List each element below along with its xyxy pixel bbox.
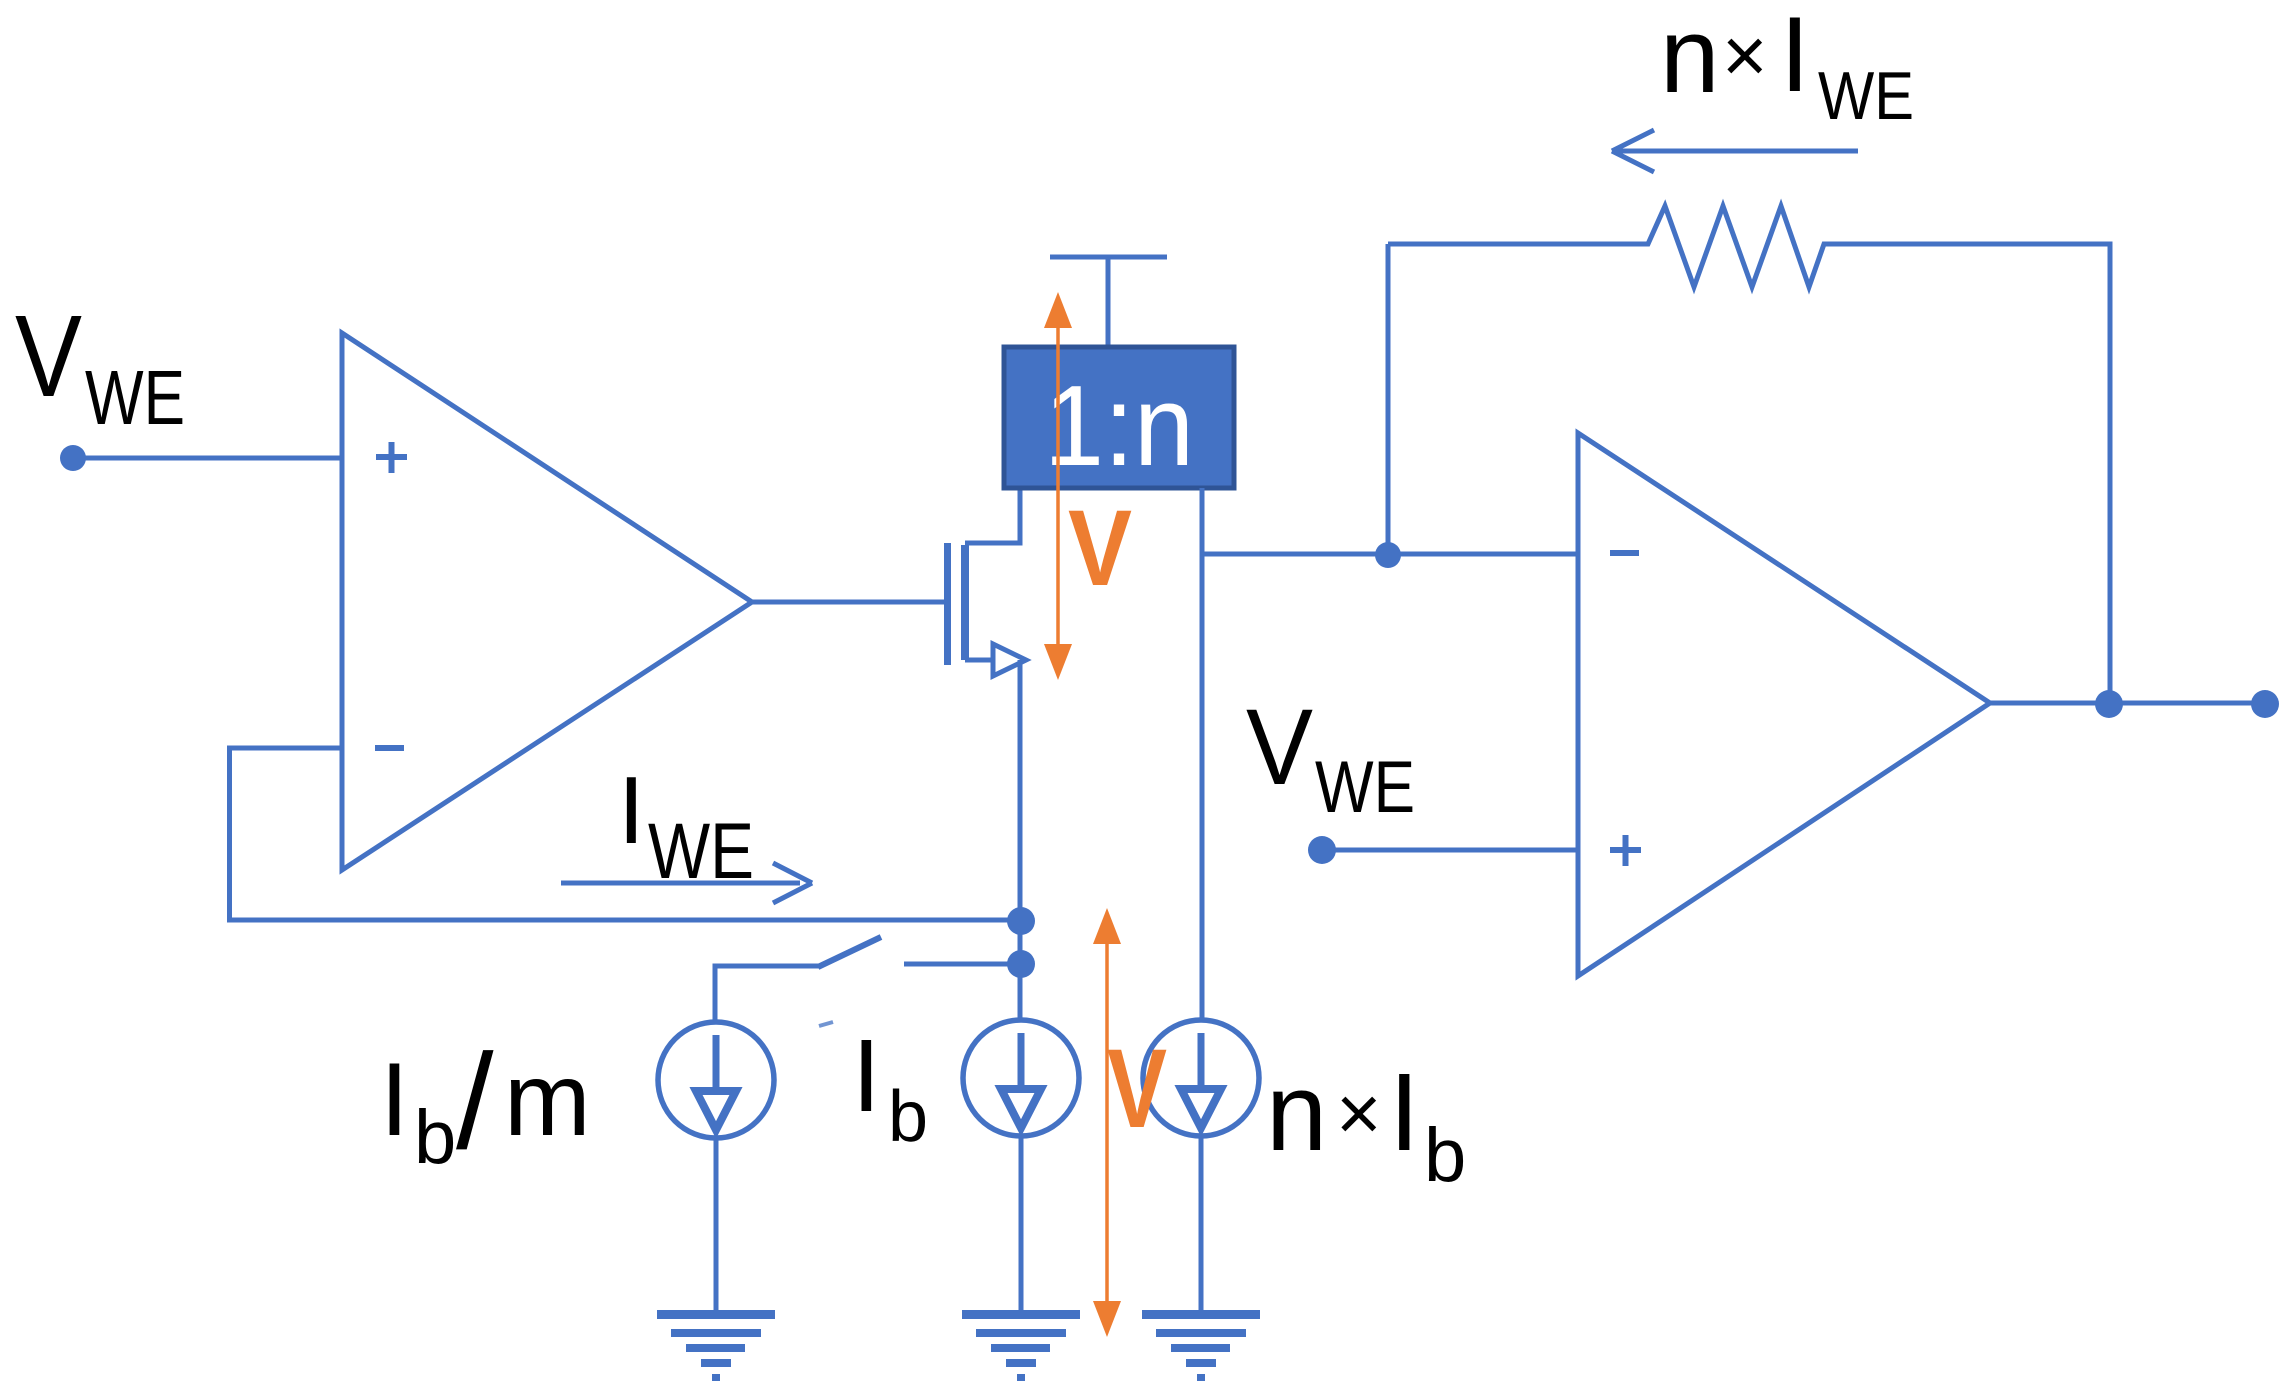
svg-text:b: b — [1424, 1113, 1466, 1198]
wire mirror secondary down — [1200, 488, 1205, 1020]
U2 plus pin label — [1610, 835, 1641, 866]
U1 plus pin label — [376, 442, 407, 473]
wire U2 output — [1988, 701, 2265, 706]
node B junction — [1375, 542, 1401, 568]
wire VWE to U2 + input — [1322, 848, 1580, 853]
power rail symbol — [1050, 257, 1167, 347]
svg-text:1:n: 1:n — [1044, 363, 1194, 490]
wire node B up to resistor R1 — [1386, 244, 1391, 554]
resistor R1 feedback — [1388, 206, 2110, 703]
wire Ib/m to ground — [714, 1136, 719, 1312]
svg-text:I: I — [380, 1042, 409, 1158]
U2 minus pin label — [1610, 550, 1639, 556]
svg-text:WE: WE — [1818, 58, 1914, 134]
node VWE input left — [60, 445, 86, 471]
svg-text:I: I — [1389, 1051, 1420, 1174]
U1 minus pin label — [375, 745, 404, 751]
svg-text:I: I — [852, 1018, 881, 1133]
wire U1 feedback loop — [230, 748, 1022, 920]
svg-text:WE: WE — [1315, 747, 1415, 828]
svg-text:×: × — [1336, 1069, 1382, 1157]
wire n x Ib to ground — [1199, 1134, 1204, 1312]
ground G1 — [657, 1310, 775, 1381]
svg-text:WE: WE — [85, 355, 185, 441]
svg-text:V: V — [1107, 1026, 1167, 1151]
ground G3 — [1142, 1310, 1260, 1381]
node output terminal — [2251, 690, 2279, 718]
transistor Q1 source lead — [965, 658, 996, 663]
current source n x Ib — [1143, 1020, 1259, 1136]
svg-text:I: I — [618, 757, 645, 864]
wire VWE to op-amp U1 + input — [73, 456, 344, 461]
wire Ib to ground — [1019, 1134, 1024, 1312]
switch S1 — [715, 966, 820, 1021]
ground G2 — [962, 1310, 1080, 1381]
voltage arrow V top (orange) — [1044, 292, 1072, 680]
node A junction dots — [1007, 907, 1035, 935]
transistor Q1 source arrow — [993, 644, 1026, 676]
svg-text:/: / — [456, 1026, 494, 1177]
svg-text:×: × — [1722, 11, 1768, 99]
node VWE input right — [1308, 836, 1336, 864]
svg-text:n: n — [1660, 0, 1720, 115]
transistor Q1 drain lead — [965, 488, 1020, 543]
svg-text:V: V — [1068, 487, 1132, 608]
op-amp U2 — [1578, 433, 1990, 976]
current mirror box 1:n — [1004, 347, 1234, 488]
transistor Q1 channel bar — [961, 545, 969, 660]
arrow IWE current direction — [561, 863, 812, 903]
wire Q1 source down to node A — [1018, 660, 1023, 1021]
current source Ib/m — [658, 1022, 774, 1138]
svg-text:V: V — [1246, 686, 1313, 807]
svg-text:b: b — [888, 1077, 928, 1157]
svg-text:b: b — [414, 1095, 456, 1180]
svg-text:I: I — [1780, 0, 1810, 114]
svg-text:m: m — [504, 1042, 591, 1158]
node U2 output junction — [2095, 690, 2123, 718]
svg-text:V: V — [15, 291, 82, 421]
voltage arrow V bottom (orange) — [1093, 908, 1121, 1337]
wire U1 output to Q1 gate — [750, 600, 944, 605]
arrow n x IWE current direction — [1612, 130, 1858, 172]
wire mirror output to op-amp U2 minus — [1202, 552, 1580, 557]
switch S1 small mark — [819, 1022, 833, 1026]
op-amp U1 — [342, 333, 752, 870]
svg-text:n: n — [1266, 1051, 1327, 1174]
current source Ib — [963, 1020, 1079, 1136]
transistor Q1 gate bar — [944, 543, 951, 665]
